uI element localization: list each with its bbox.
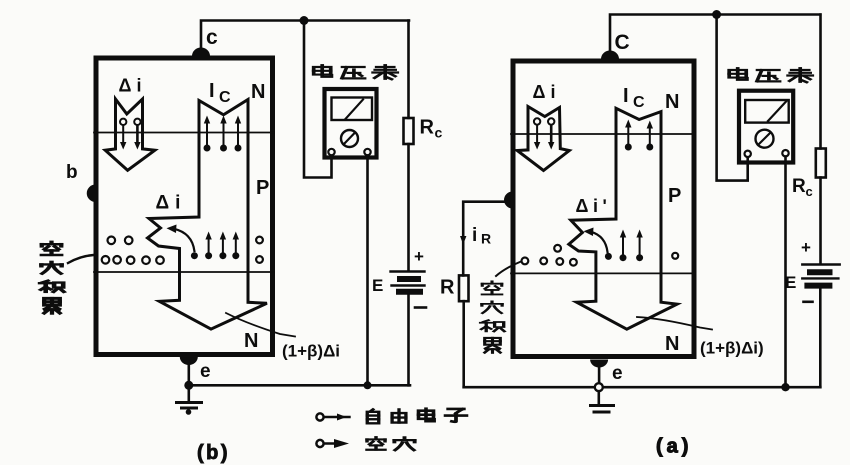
svg-text:I: I	[623, 85, 629, 107]
voltmeter label	[314, 65, 398, 79]
wire c up and top wire	[201, 21, 409, 49]
voltmeter terminals	[328, 149, 334, 155]
svg-text:I: I	[209, 80, 215, 102]
electrons moving up (middle)	[205, 232, 239, 260]
svg-text:Δiʹ: Δiʹ	[576, 196, 612, 216]
resistor R branch: wire from b	[463, 202, 508, 276]
funnel down arrow 2	[550, 126, 553, 145]
svg-text:Δi: Δi	[156, 193, 187, 214]
ground left	[188, 385, 191, 401]
funnel down arrow 2	[136, 126, 139, 144]
voltmeter terminals	[745, 151, 751, 157]
svg-text:R: R	[481, 231, 491, 247]
holes in funnel	[120, 119, 126, 125]
terminal C bump	[601, 51, 619, 60]
junction line upper	[94, 132, 274, 134]
electrons under Ic V	[625, 120, 654, 151]
terminal c bump	[192, 48, 210, 57]
legend text free electron	[367, 409, 466, 424]
wire R down to bottom	[462, 301, 465, 387]
svg-text:N: N	[665, 333, 679, 355]
wire to voltmeter left terminal	[304, 21, 332, 178]
svg-text:b: b	[66, 162, 78, 183]
voltmeter needle	[345, 100, 363, 120]
legend text hole	[367, 437, 415, 450]
svg-text:E: E	[372, 276, 383, 295]
terminal e bump	[180, 357, 198, 365]
junction line lower	[511, 272, 691, 274]
svg-text:P: P	[668, 185, 681, 207]
svg-text:R: R	[420, 117, 435, 139]
junction line upper	[511, 133, 691, 135]
svg-text:+: +	[801, 238, 811, 257]
iR current arrowhead	[460, 236, 466, 245]
holes in funnel	[534, 118, 540, 124]
wire voltmeter right terminal down	[784, 157, 787, 388]
junction e open circle	[595, 383, 603, 391]
leader line to (1+beta)di label	[637, 317, 712, 330]
funnel down arrow 1	[536, 126, 538, 145]
svg-text:(a): (a)	[656, 436, 692, 458]
hole circles right column	[256, 237, 263, 244]
curved arrow to zigzag	[605, 253, 612, 260]
svg-text:P: P	[256, 177, 269, 199]
wire voltmeter right terminal down	[366, 156, 369, 386]
electrons moving up (middle)	[620, 230, 644, 262]
svg-text:C: C	[633, 94, 645, 111]
leader line to (1+beta)di label	[226, 313, 295, 337]
wire e down	[188, 362, 191, 385]
kongxue-jilei vertical text (hole accumulation)	[481, 281, 505, 352]
svg-text:c: c	[806, 184, 813, 199]
bottom wire	[189, 384, 410, 387]
transistor body box	[96, 58, 273, 355]
svg-text:i: i	[472, 225, 477, 246]
junction node voltmeter bottom	[781, 383, 789, 391]
voltmeter needle	[768, 102, 786, 122]
junction node e	[184, 381, 193, 390]
svg-text:N: N	[665, 91, 679, 113]
voltmeter label	[729, 68, 812, 82]
leader line from text to holes	[496, 262, 521, 277]
bottom wire	[464, 386, 821, 389]
Ic channel + zigzag + big bottom arrow outline	[148, 100, 267, 330]
funnel down arrow 1	[122, 126, 124, 144]
voltmeter knob	[756, 130, 774, 148]
transistor body box	[513, 61, 694, 357]
delta-i funnel arrow	[517, 107, 569, 171]
terminal b bump	[87, 185, 96, 203]
legend hole symbol	[316, 440, 323, 447]
ground right	[597, 391, 600, 404]
svg-text:+: +	[414, 247, 424, 266]
delta-i funnel arrow	[105, 99, 155, 170]
hole circles rows (P region left)	[102, 237, 164, 265]
wire e down	[598, 364, 601, 383]
electrons under Ic V	[204, 116, 242, 152]
voltmeter display	[332, 98, 373, 121]
svg-text:R: R	[440, 277, 455, 299]
svg-text:(b): (b)	[197, 442, 230, 464]
voltmeter display	[745, 100, 789, 123]
battery E	[391, 270, 425, 272]
curved arrow to zigzag	[191, 252, 198, 259]
Ic channel + zigzag + big bottom arrow outline	[569, 108, 677, 329]
svg-text:(1+β)Δi: (1+β)Δi	[282, 342, 340, 361]
svg-text:(1+β)Δi): (1+β)Δi)	[700, 339, 764, 358]
svg-text:N: N	[244, 330, 258, 352]
svg-text:R: R	[792, 176, 806, 197]
terminal e bump	[590, 360, 608, 368]
wire C up and top wire	[610, 15, 820, 52]
hole circle right	[672, 253, 678, 259]
junction node top	[300, 16, 309, 25]
battery E	[802, 263, 839, 265]
resistor Rc	[819, 15, 822, 149]
svg-text:c: c	[206, 26, 218, 49]
voltmeter body	[325, 89, 377, 158]
svg-text:C: C	[615, 31, 630, 54]
leader line from text to holes	[68, 255, 94, 263]
legend free electron symbol	[316, 413, 323, 420]
wire to voltmeter left terminal	[717, 15, 748, 181]
svg-text:c: c	[435, 125, 443, 141]
svg-text:N: N	[251, 81, 265, 103]
resistor R	[459, 275, 469, 301]
junction node voltmeter bottom	[364, 381, 372, 389]
junction node top	[712, 10, 721, 19]
svg-text:Δi: Δi	[119, 76, 147, 96]
svg-text:E: E	[785, 273, 796, 292]
voltmeter body	[739, 91, 793, 163]
svg-text:e: e	[200, 361, 211, 382]
voltmeter knob	[341, 130, 358, 147]
terminal b bump	[504, 192, 513, 209]
svg-text:Δi: Δi	[533, 82, 561, 102]
svg-text:e: e	[612, 363, 623, 384]
svg-text:C: C	[219, 89, 231, 106]
junction line lower	[94, 271, 274, 273]
hole circles cluster	[522, 245, 577, 266]
resistor Rc	[407, 21, 410, 119]
kongxue-jilei vertical text (hole accumulation)	[40, 242, 64, 313]
